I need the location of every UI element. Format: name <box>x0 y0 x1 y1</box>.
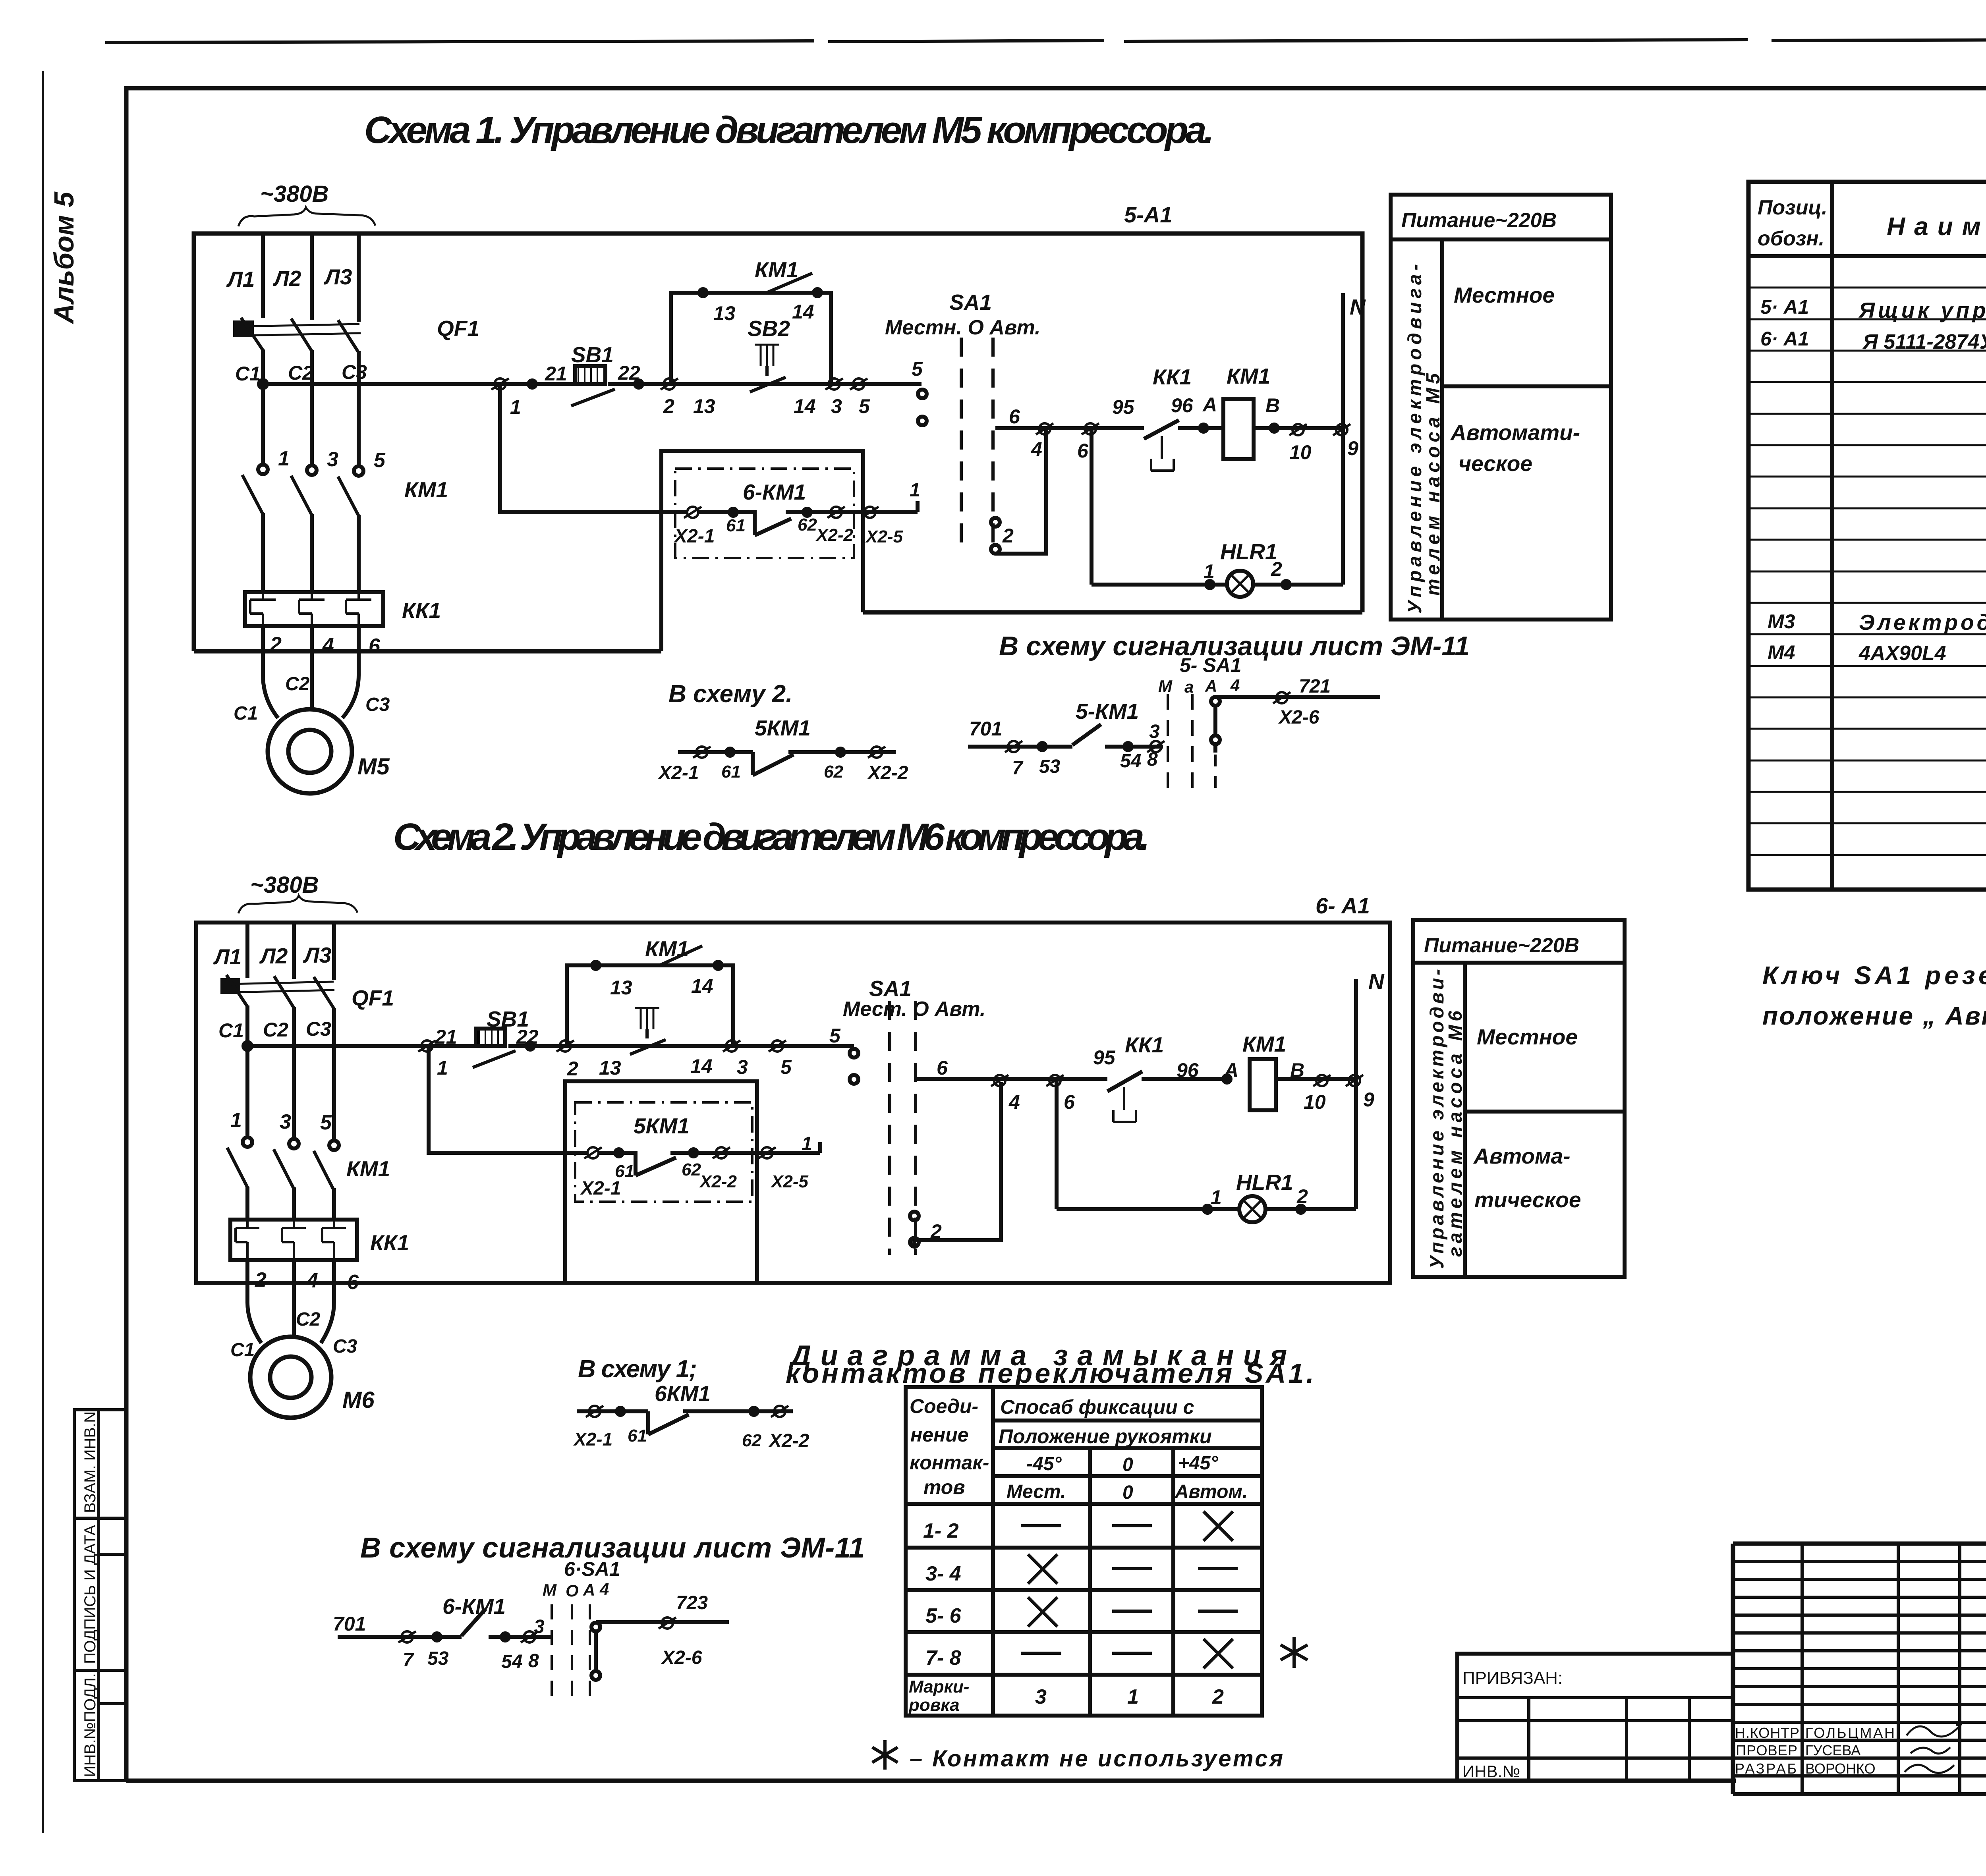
svg-text:1: 1 <box>910 480 920 501</box>
svg-text:SA1: SA1 <box>949 290 992 315</box>
svg-text:6: 6 <box>937 1057 948 1079</box>
svg-text:С2: С2 <box>288 362 313 384</box>
svg-text:6: 6 <box>347 1271 359 1294</box>
svg-text:КК1: КК1 <box>1153 365 1192 389</box>
svg-text:ВОРОНКО: ВОРОНКО <box>1805 1760 1876 1777</box>
svg-text:Альбом 5: Альбом 5 <box>48 191 79 324</box>
svg-text:Питание~220В: Питание~220В <box>1424 934 1579 957</box>
svg-text:5КМ1: 5КМ1 <box>755 716 811 740</box>
svg-text:С1: С1 <box>234 703 258 724</box>
svg-text:2: 2 <box>567 1058 578 1080</box>
svg-text:Автомати-: Автомати- <box>1450 420 1580 445</box>
svg-text:61: 61 <box>615 1162 634 1181</box>
svg-text:14: 14 <box>792 301 814 323</box>
svg-text:10: 10 <box>1304 1091 1326 1113</box>
svg-text:6КМ1: 6КМ1 <box>655 1381 711 1406</box>
svg-text:7: 7 <box>1012 758 1024 779</box>
svg-text:Л1: Л1 <box>226 267 255 291</box>
svg-text:96: 96 <box>1177 1059 1199 1081</box>
svg-text:N: N <box>1350 295 1366 319</box>
svg-text:62: 62 <box>742 1431 761 1450</box>
svg-text:ческое: ческое <box>1459 451 1532 476</box>
svg-text:О: О <box>566 1581 579 1600</box>
svg-text:Я 5111-2874УХЛ4: Я 5111-2874УХЛ4 <box>1862 330 1986 353</box>
svg-text:М: М <box>543 1581 557 1599</box>
svg-text:54: 54 <box>1120 751 1141 772</box>
svg-text:6·SA1: 6·SA1 <box>564 1558 620 1580</box>
svg-text:22: 22 <box>516 1026 539 1048</box>
svg-text:5: 5 <box>859 395 870 417</box>
svg-text:обозн.: обозн. <box>1758 227 1824 250</box>
svg-text:Л2: Л2 <box>259 944 288 968</box>
svg-text:62: 62 <box>798 515 817 535</box>
svg-text:С2: С2 <box>296 1309 321 1330</box>
svg-text:5: 5 <box>829 1025 841 1047</box>
svg-text:ИНВ.№ПОДЛ.: ИНВ.№ПОДЛ. <box>81 1673 99 1777</box>
svg-text:1: 1 <box>437 1057 448 1079</box>
svg-text:1- 2: 1- 2 <box>923 1519 959 1542</box>
svg-text:Соеди-: Соеди- <box>910 1395 978 1417</box>
svg-text:6-КМ1: 6-КМ1 <box>442 1594 506 1619</box>
svg-text:8: 8 <box>528 1650 539 1671</box>
svg-text:ИНВ.№: ИНВ.№ <box>1462 1762 1520 1781</box>
svg-text:положение „ Авт". после запу: положение „ Авт". после запуска рабочего… <box>1762 1002 1986 1030</box>
svg-text:М6: М6 <box>342 1387 375 1413</box>
svg-text:КМ1: КМ1 <box>1227 364 1270 388</box>
svg-text:5КМ1: 5КМ1 <box>634 1114 690 1138</box>
svg-text:КМ1: КМ1 <box>1242 1032 1286 1056</box>
svg-text:2: 2 <box>255 1268 267 1291</box>
svg-text:нение: нение <box>910 1424 969 1446</box>
svg-text:13: 13 <box>713 302 736 324</box>
svg-text:М3: М3 <box>1768 610 1795 633</box>
svg-text:~380В: ~380В <box>250 872 319 898</box>
svg-text:X2-1: X2-1 <box>573 1429 612 1449</box>
svg-text:Автома-: Автома- <box>1473 1144 1571 1168</box>
svg-text:X2-2: X2-2 <box>867 762 908 784</box>
svg-text:10: 10 <box>1289 441 1312 463</box>
svg-text:SB2: SB2 <box>748 316 790 341</box>
svg-text:QF1: QF1 <box>437 316 479 341</box>
svg-text:2: 2 <box>663 395 674 417</box>
svg-text:С2: С2 <box>285 674 310 695</box>
svg-text:4: 4 <box>1031 438 1042 460</box>
svg-text:А: А <box>1205 677 1217 695</box>
svg-text:13: 13 <box>610 977 632 999</box>
svg-text:2: 2 <box>270 633 282 656</box>
svg-text:5· А1: 5· А1 <box>1760 296 1809 318</box>
svg-text:1: 1 <box>510 396 521 418</box>
svg-text:14: 14 <box>794 395 816 417</box>
svg-text:0: 0 <box>1122 1482 1133 1503</box>
svg-text:Мест. О Авт.: Мест. О Авт. <box>843 998 985 1021</box>
svg-text:2: 2 <box>1002 525 1014 547</box>
svg-text:КК1: КК1 <box>402 598 441 623</box>
svg-text:9: 9 <box>1363 1089 1374 1111</box>
svg-text:13: 13 <box>693 395 715 417</box>
svg-text:96: 96 <box>1171 394 1194 417</box>
svg-text:721: 721 <box>1299 676 1331 697</box>
svg-text:61: 61 <box>628 1426 647 1446</box>
svg-text:95: 95 <box>1093 1046 1116 1069</box>
svg-text:Питание~220В: Питание~220В <box>1401 209 1557 232</box>
svg-text:В: В <box>1290 1059 1304 1081</box>
svg-text:HLR1: HLR1 <box>1220 539 1277 564</box>
svg-text:Схема 2. Управление двигателе: Схема 2. Управление двигателем М6 компре… <box>393 816 1150 858</box>
svg-text:5- 6: 5- 6 <box>925 1604 962 1627</box>
svg-text:54: 54 <box>501 1651 522 1672</box>
svg-text:КМ1: КМ1 <box>645 936 689 961</box>
svg-text:5-КМ1: 5-КМ1 <box>1076 699 1139 724</box>
svg-text:6: 6 <box>1009 405 1020 428</box>
svg-text:5: 5 <box>374 449 386 472</box>
svg-text:3: 3 <box>1035 1685 1047 1708</box>
svg-text:Л3: Л3 <box>303 943 331 967</box>
svg-text:ровка: ровка <box>908 1695 960 1715</box>
svg-text:1: 1 <box>230 1109 242 1132</box>
svg-text:4: 4 <box>599 1580 609 1598</box>
svg-text:С2: С2 <box>263 1019 288 1041</box>
svg-text:5- SA1: 5- SA1 <box>1180 654 1242 676</box>
svg-text:Л2: Л2 <box>272 266 301 291</box>
svg-text:4: 4 <box>1008 1091 1020 1113</box>
svg-text:+45°: +45° <box>1178 1453 1218 1474</box>
svg-text:С1: С1 <box>235 363 261 385</box>
svg-text:Схема 1. Управление двигателе: Схема 1. Управление двигателем М5 компре… <box>364 109 1214 151</box>
svg-text:2: 2 <box>1271 558 1282 580</box>
svg-text:SB1: SB1 <box>571 342 614 367</box>
svg-text:С1: С1 <box>218 1019 244 1042</box>
svg-text:КМ1: КМ1 <box>346 1156 390 1181</box>
svg-text:53: 53 <box>427 1648 449 1669</box>
svg-text:62: 62 <box>682 1160 701 1179</box>
svg-text:ПРОВЕР: ПРОВЕР <box>1736 1742 1797 1758</box>
svg-text:SA1: SA1 <box>869 976 912 1001</box>
svg-text:X2-2: X2-2 <box>768 1430 809 1451</box>
svg-text:6: 6 <box>1064 1091 1075 1113</box>
svg-text:61: 61 <box>726 516 746 535</box>
svg-text:5: 5 <box>320 1111 332 1134</box>
svg-text:В схему 2.: В схему 2. <box>668 680 792 708</box>
svg-text:1: 1 <box>278 447 290 470</box>
svg-text:3: 3 <box>534 1616 545 1637</box>
svg-text:1: 1 <box>802 1133 812 1154</box>
svg-text:2: 2 <box>930 1220 942 1243</box>
svg-text:Спосаб фиксации с: Спосаб фиксации с <box>1000 1396 1194 1418</box>
svg-text:X2-2: X2-2 <box>699 1172 737 1191</box>
svg-text:ВЗАМ. ИНВ.N: ВЗАМ. ИНВ.N <box>81 1411 99 1513</box>
svg-text:1: 1 <box>1211 1186 1222 1208</box>
svg-text:а: а <box>1184 677 1194 696</box>
svg-text:X2-6: X2-6 <box>1278 707 1319 728</box>
svg-text:14: 14 <box>690 1055 713 1077</box>
svg-text:7: 7 <box>403 1650 414 1671</box>
svg-text:КМ1: КМ1 <box>404 477 448 502</box>
svg-text:14: 14 <box>691 975 713 997</box>
svg-text:5: 5 <box>912 358 923 380</box>
svg-text:13: 13 <box>599 1057 621 1079</box>
svg-text:С1: С1 <box>230 1339 255 1361</box>
svg-text:1: 1 <box>1204 560 1215 583</box>
svg-text:6: 6 <box>1077 440 1089 462</box>
svg-text:КМ1: КМ1 <box>755 257 798 282</box>
svg-text:Местн. О Авт.: Местн. О Авт. <box>885 316 1041 339</box>
svg-text:3: 3 <box>831 395 842 417</box>
svg-text:тов: тов <box>923 1476 965 1498</box>
svg-text:С3: С3 <box>342 361 367 383</box>
svg-text:А: А <box>583 1581 595 1599</box>
svg-text:Автом.: Автом. <box>1175 1481 1248 1502</box>
svg-text:X2-6: X2-6 <box>661 1647 702 1668</box>
svg-text:-45°: -45° <box>1026 1453 1062 1475</box>
svg-text:Л1: Л1 <box>213 944 241 969</box>
svg-text:Местное: Местное <box>1454 283 1555 307</box>
svg-text:X2-5: X2-5 <box>865 527 903 546</box>
svg-text:А: А <box>1223 1059 1238 1081</box>
svg-text:5: 5 <box>780 1056 792 1078</box>
svg-text:тическое: тическое <box>1474 1187 1581 1212</box>
svg-text:6- А1: 6- А1 <box>1316 893 1370 918</box>
svg-text:N: N <box>1368 969 1385 994</box>
svg-text:КК1: КК1 <box>370 1230 409 1255</box>
svg-text:X2-1: X2-1 <box>673 526 715 547</box>
svg-text:ПРИВЯЗАН:: ПРИВЯЗАН: <box>1462 1668 1563 1688</box>
svg-text:В схему 1;: В схему 1; <box>578 1355 697 1383</box>
svg-text:6· А1: 6· А1 <box>1760 328 1809 350</box>
svg-text:КК1: КК1 <box>1125 1033 1164 1057</box>
svg-text:М5: М5 <box>357 754 390 780</box>
svg-text:6-КМ1: 6-КМ1 <box>743 480 806 504</box>
svg-text:0: 0 <box>1122 1454 1133 1475</box>
svg-text:9: 9 <box>1347 437 1358 459</box>
svg-text:Марки-: Марки- <box>909 1677 969 1697</box>
svg-text:X2-5: X2-5 <box>770 1172 808 1191</box>
svg-text:4: 4 <box>322 634 334 657</box>
svg-text:3: 3 <box>1149 721 1160 742</box>
svg-text:~380В: ~380В <box>260 181 329 207</box>
svg-text:701: 701 <box>969 718 1002 740</box>
svg-text:4: 4 <box>306 1269 318 1292</box>
svg-text:М: М <box>1158 677 1173 695</box>
svg-text:2: 2 <box>1212 1685 1224 1708</box>
svg-text:61: 61 <box>721 762 741 782</box>
svg-text:Электродвигатель ~380В: Электродвигатель ~380В <box>1859 610 1986 635</box>
svg-text:Местное: Местное <box>1477 1025 1578 1049</box>
svg-text:контак-: контак- <box>910 1451 989 1474</box>
svg-text:Л3: Л3 <box>323 264 352 289</box>
svg-text:53: 53 <box>1039 756 1061 777</box>
svg-text:Мест.: Мест. <box>1007 1481 1066 1502</box>
svg-text:Положение рукоятки: Положение рукоятки <box>999 1425 1212 1448</box>
svg-text:В: В <box>1265 394 1280 417</box>
svg-text:Н.КОНТР: Н.КОНТР <box>1735 1725 1799 1741</box>
svg-text:ПОДПИСЬ И ДАТА: ПОДПИСЬ И ДАТА <box>81 1525 99 1664</box>
svg-text:1: 1 <box>1127 1685 1139 1708</box>
svg-text:гателем насоса М6: гателем насоса М6 <box>1445 1011 1466 1257</box>
svg-text:С3: С3 <box>365 694 390 715</box>
svg-text:3: 3 <box>280 1110 291 1133</box>
svg-text:701: 701 <box>333 1613 366 1635</box>
svg-text:HLR1: HLR1 <box>1236 1170 1293 1195</box>
svg-text:7- 8: 7- 8 <box>925 1646 961 1669</box>
svg-text:4: 4 <box>1230 676 1240 695</box>
svg-text:ГУСЕВА: ГУСЕВА <box>1805 1742 1860 1758</box>
svg-text:3- 4: 3- 4 <box>925 1562 961 1585</box>
svg-text:8: 8 <box>1147 749 1158 770</box>
svg-text:С3: С3 <box>333 1336 357 1357</box>
svg-text:6: 6 <box>369 635 381 658</box>
svg-text:2: 2 <box>1296 1185 1308 1208</box>
svg-text:Позиц.: Позиц. <box>1758 196 1828 219</box>
svg-text:21: 21 <box>435 1026 457 1048</box>
svg-text:21: 21 <box>545 363 567 385</box>
svg-text:контактов переключателя SA1.: контактов переключателя SA1. <box>786 1358 1314 1389</box>
svg-text:М4: М4 <box>1768 641 1795 664</box>
svg-text:5-А1: 5-А1 <box>1124 202 1172 227</box>
svg-text:С3: С3 <box>306 1018 331 1040</box>
svg-text:95: 95 <box>1112 396 1135 418</box>
svg-text:X2-1: X2-1 <box>657 762 699 784</box>
svg-text:62: 62 <box>824 762 843 782</box>
svg-text:QF1: QF1 <box>352 986 394 1010</box>
svg-text:А: А <box>1202 394 1217 416</box>
svg-text:X2-2: X2-2 <box>815 525 853 545</box>
svg-text:723: 723 <box>676 1592 708 1614</box>
svg-text:ГОЛЬЦМАН: ГОЛЬЦМАН <box>1805 1725 1895 1741</box>
svg-text:3: 3 <box>737 1056 748 1078</box>
svg-text:22: 22 <box>618 362 640 384</box>
svg-text:4АХ90L4: 4АХ90L4 <box>1858 642 1946 665</box>
svg-text:3: 3 <box>327 448 338 471</box>
